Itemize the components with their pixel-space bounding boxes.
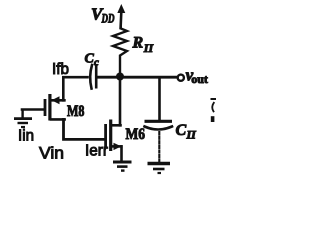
output terminal circle (178, 75, 184, 81)
svg-text:C: C (176, 122, 187, 139)
source arrow (52, 96, 60, 104)
stray mark: dash (right edge) (212, 98, 216, 100)
svg-text:DD: DD (101, 11, 115, 26)
svg-text:M6: M6 (126, 126, 146, 143)
svg-text:M8: M8 (67, 103, 85, 120)
resistor RII (113, 26, 127, 73)
svg-text:Ifb: Ifb (52, 61, 69, 78)
gate bar (104, 124, 107, 147)
capacitor Cc (90, 64, 96, 89)
ground (left, at M8 gate) (14, 110, 32, 128)
svg-text:II: II (143, 41, 155, 55)
channel bar (109, 120, 112, 152)
ground (under M6) (113, 162, 132, 171)
wire: M8 drain to M6 gate (Ierr net) (64, 119, 105, 139)
source wire (top) (51, 99, 64, 102)
label RII (132, 35, 155, 56)
svg-text:out: out (191, 72, 208, 86)
channel bar (48, 94, 51, 121)
ground (under CII) (148, 164, 171, 174)
label Cc (85, 52, 100, 69)
wire: Ifb net (cap left lead and drop to M8 source) (63, 77, 87, 100)
gate lead (22, 108, 44, 111)
stray mark: parenthesis (right edge) (212, 103, 214, 112)
source wire (bottom) (112, 145, 121, 148)
power VDD arrow (117, 4, 125, 28)
svg-text:C: C (85, 52, 95, 67)
source arrow (114, 143, 122, 150)
stray mark: filled bar (right edge) (211, 116, 215, 122)
capacitor CII (145, 121, 173, 129)
node junction dot (116, 73, 124, 81)
transistor M8 (PMOS) (22, 94, 65, 121)
svg-text:Vin: Vin (39, 144, 64, 163)
wire: node to M6 drain (119, 79, 122, 125)
svg-text:II: II (186, 128, 198, 142)
drain wire (bottom) (51, 118, 65, 121)
drain wire (top) (112, 124, 120, 127)
source drop to ground (120, 146, 123, 161)
svg-text:c: c (94, 57, 99, 69)
label CII (176, 122, 198, 142)
wire: main horizontal output net (97, 76, 177, 79)
power VDD label (91, 5, 115, 26)
transistor M6 (NMOS) (106, 120, 122, 162)
wire: output net down to CII (158, 78, 161, 119)
svg-text:Iin: Iin (18, 128, 34, 145)
svg-text:R: R (132, 35, 144, 52)
gate bar (44, 99, 47, 116)
label vout (186, 65, 208, 86)
wire: CII to ground (dotted in scan) (158, 132, 160, 162)
